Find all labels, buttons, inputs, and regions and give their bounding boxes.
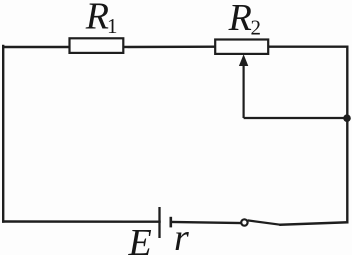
- wire top between R1 and R2: [123, 46, 216, 49]
- resistor R1: [70, 38, 124, 53]
- wiper arrow of R2: [239, 54, 248, 118]
- svg-text:1: 1: [107, 14, 118, 38]
- svg-text:E: E: [128, 222, 152, 255]
- wire bottom from switch to right corner: [281, 222, 348, 224]
- battery E long plate: [158, 207, 160, 238]
- svg-text:2: 2: [251, 15, 262, 39]
- wire top from left corner to R1: [3, 46, 70, 48]
- junction dot: [343, 114, 351, 122]
- wire left vertical: [2, 46, 4, 222]
- svg-text:R: R: [228, 0, 252, 39]
- resistor R2 (rheostat): [215, 40, 268, 54]
- wire top from R2 to right corner: [268, 46, 347, 48]
- svg-text:R: R: [85, 0, 109, 38]
- wire right vertical: [346, 47, 348, 223]
- svg-text:r: r: [174, 217, 189, 255]
- wire bottom from battery to switch: [171, 222, 241, 223]
- wire from wiper to right side: [244, 117, 348, 119]
- battery short plate (internal resistance side): [170, 217, 173, 228]
- switch S blade: [248, 220, 281, 224]
- wire bottom from left corner to battery: [3, 220, 159, 223]
- switch S contact circle: [241, 219, 247, 225]
